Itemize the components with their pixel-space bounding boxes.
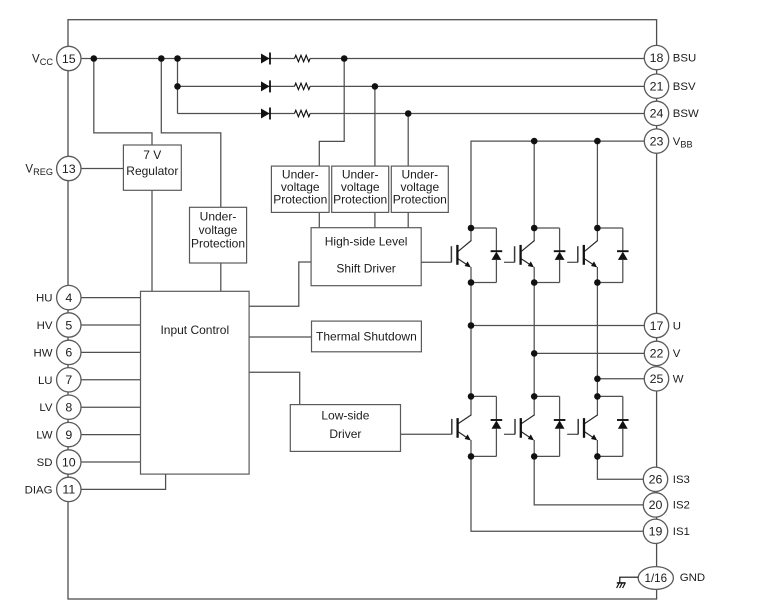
svg-text:voltage: voltage xyxy=(199,223,238,237)
svg-text:Thermal Shutdown: Thermal Shutdown xyxy=(316,329,417,343)
svg-text:6: 6 xyxy=(65,346,72,360)
svg-text:9: 9 xyxy=(65,428,72,442)
svg-text:Under-: Under- xyxy=(200,210,237,224)
svg-text:Protection: Protection xyxy=(273,192,327,206)
svg-text:24: 24 xyxy=(650,107,664,121)
svg-text:25: 25 xyxy=(650,372,664,386)
svg-text:Protection: Protection xyxy=(393,192,447,206)
svg-text:High-side Level: High-side Level xyxy=(325,235,408,249)
svg-text:Regulator: Regulator xyxy=(126,164,178,178)
svg-text:LU: LU xyxy=(38,375,53,387)
svg-text:LW: LW xyxy=(36,430,52,442)
svg-text:10: 10 xyxy=(62,455,76,469)
svg-text:22: 22 xyxy=(650,347,664,361)
svg-text:23: 23 xyxy=(650,134,664,148)
svg-text:Driver: Driver xyxy=(329,427,361,441)
svg-text:26: 26 xyxy=(649,473,663,487)
svg-text:DIAG: DIAG xyxy=(25,484,53,496)
svg-text:BSW: BSW xyxy=(673,108,699,120)
svg-text:17: 17 xyxy=(650,319,664,333)
svg-text:IS3: IS3 xyxy=(673,474,690,486)
svg-text:IS1: IS1 xyxy=(673,526,690,538)
svg-text:BSU: BSU xyxy=(673,52,696,64)
svg-text:1/16: 1/16 xyxy=(645,572,668,585)
svg-text:7 V: 7 V xyxy=(143,148,161,162)
svg-text:21: 21 xyxy=(650,80,664,94)
svg-text:20: 20 xyxy=(649,498,663,512)
svg-text:LV: LV xyxy=(39,402,52,414)
svg-text:HW: HW xyxy=(34,347,53,359)
svg-text:11: 11 xyxy=(62,483,75,497)
svg-text:BSV: BSV xyxy=(673,81,696,93)
svg-text:HV: HV xyxy=(37,320,53,332)
svg-text:5: 5 xyxy=(65,318,72,332)
svg-text:8: 8 xyxy=(65,401,72,415)
svg-text:4: 4 xyxy=(65,291,72,305)
svg-text:18: 18 xyxy=(650,51,664,65)
svg-text:Low-side: Low-side xyxy=(321,409,369,423)
svg-text:Protection: Protection xyxy=(191,237,245,251)
svg-text:Input Control: Input Control xyxy=(160,323,229,337)
svg-text:IS2: IS2 xyxy=(673,500,690,512)
svg-text:W: W xyxy=(673,374,684,386)
svg-text:GND: GND xyxy=(680,572,705,584)
svg-text:U: U xyxy=(673,320,681,332)
svg-text:13: 13 xyxy=(62,162,76,176)
svg-text:Protection: Protection xyxy=(333,192,387,206)
svg-text:19: 19 xyxy=(649,525,663,539)
svg-text:7: 7 xyxy=(65,373,72,387)
svg-text:15: 15 xyxy=(62,52,76,66)
svg-text:V: V xyxy=(673,348,681,360)
svg-text:HU: HU xyxy=(36,293,52,305)
svg-text:Shift Driver: Shift Driver xyxy=(336,262,395,276)
svg-text:SD: SD xyxy=(37,457,53,469)
